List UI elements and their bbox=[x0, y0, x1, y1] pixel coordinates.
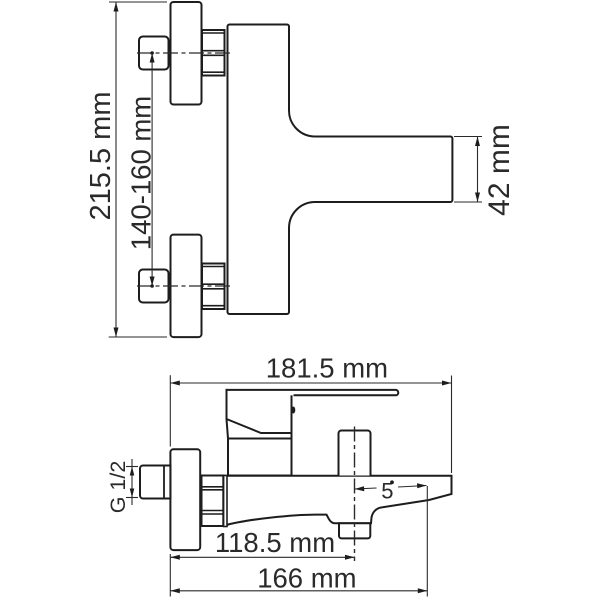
hex nut top bbox=[202, 30, 225, 76]
svg-text:215.5 mm: 215.5 mm bbox=[85, 92, 117, 221]
handle left edge bbox=[227, 389, 229, 439]
dimension 118.5 mm: arrow right bbox=[345, 555, 355, 560]
dimension 118.5 mm: dimension line bbox=[170, 556, 354, 558]
wall eccentric fitting bottom bbox=[139, 270, 169, 303]
degree mark of 5 deg bbox=[390, 480, 394, 484]
dimension 5 deg: arrow right bbox=[417, 483, 427, 488]
dimension 42 mm: extension line top bbox=[454, 136, 482, 138]
svg-text:181.5 mm: 181.5 mm bbox=[266, 353, 388, 384]
handle lever blade bbox=[227, 390, 399, 395]
center line bottom fitting axis bbox=[137, 285, 231, 287]
center line spout axis bbox=[354, 427, 356, 562]
dimension 181.5 mm: dimension line bbox=[170, 382, 451, 384]
dimension 215.5 mm: arrow bottom bbox=[114, 328, 119, 338]
dimension 166 mm: arrow right bbox=[418, 588, 428, 593]
dimension 166 mm: dimension line bbox=[170, 590, 427, 592]
dimension 181.5 mm: arrow left bbox=[170, 381, 180, 386]
dimension 118.5 mm: arrow left bbox=[170, 555, 180, 560]
dimension 140-160 mm: arrow top bbox=[150, 53, 155, 63]
dimension 166 mm: arrow left bbox=[170, 588, 180, 593]
dimension 42 mm: extension line bottom bbox=[454, 201, 482, 203]
wall flange side view bbox=[170, 449, 200, 550]
dimension 181.5 mm: arrow right bbox=[442, 381, 452, 386]
hex nut bottom bbox=[202, 264, 225, 310]
dimension 166 mm: extension line left bbox=[169, 554, 171, 597]
svg-text:42 mm: 42 mm bbox=[483, 124, 516, 216]
diverter knob bbox=[339, 431, 371, 476]
dimension 215.5 mm: extension line bottom bbox=[109, 336, 167, 338]
dimension 215.5 mm: arrow top bbox=[114, 2, 119, 12]
dimension G 1/2: extension tick top bbox=[126, 466, 138, 468]
dimension G 1/2: extension tick bottom bbox=[126, 497, 138, 499]
nipple joint line bbox=[163, 466, 165, 499]
aerator housing bbox=[339, 523, 370, 538]
escutcheon plate top bbox=[171, 2, 202, 105]
dimension G 1/2: arrow bottom bbox=[130, 489, 135, 498]
dimension 5 deg: arrow left bbox=[355, 486, 365, 491]
dimension 42 mm: arrow top bbox=[475, 137, 480, 147]
dimension 215.5 mm: extension line top bbox=[109, 1, 167, 3]
svg-text:G 1/2: G 1/2 bbox=[106, 461, 130, 514]
cartridge block bbox=[228, 439, 292, 476]
dimension 42 mm: dimension line bbox=[477, 137, 479, 203]
dimension 181.5 mm: extension line left bbox=[169, 375, 171, 446]
svg-text:118.5 mm: 118.5 mm bbox=[215, 527, 335, 558]
node: top fitting center bbox=[150, 51, 154, 55]
spout body side view bbox=[225, 476, 452, 526]
wall eccentric fitting top bbox=[139, 37, 169, 70]
center line top fitting axis bbox=[137, 52, 231, 54]
escutcheon plate bottom bbox=[171, 235, 202, 338]
handle right edge bbox=[291, 395, 293, 475]
faucet body with spout, front view bbox=[228, 25, 453, 315]
dimension G 1/2: arrow top bbox=[130, 467, 135, 476]
dimension 42 mm: arrow bottom bbox=[475, 193, 480, 203]
eccentric fitting rear sleeve bottom bbox=[158, 274, 171, 297]
dimension 140-160 mm: dimension line bbox=[151, 53, 153, 286]
dimension 5 deg: left segment bbox=[355, 488, 377, 489]
node: bottom fitting center bbox=[150, 284, 154, 288]
G 1/2 threaded nipple bbox=[140, 466, 170, 499]
svg-text:140-160 mm: 140-160 mm bbox=[125, 96, 156, 250]
dimension G 1/2: dimension line bbox=[131, 459, 133, 505]
washer strip bbox=[224, 476, 227, 527]
dimension 5 deg: right segment bbox=[398, 486, 427, 488]
eccentric fitting rear sleeve top bbox=[158, 41, 171, 64]
handle skirt underside bbox=[227, 419, 292, 433]
handle set screw dot bbox=[291, 407, 295, 414]
dimension 181.5 mm: extension line right bbox=[451, 376, 453, 474]
dimension 166 mm: extension line right bbox=[426, 486, 428, 597]
svg-text:166 mm: 166 mm bbox=[257, 562, 356, 593]
hex nut side view bbox=[202, 476, 224, 527]
dimension 140-160 mm: arrow bottom bbox=[150, 277, 155, 287]
dimension 215.5 mm: dimension line bbox=[115, 2, 117, 337]
